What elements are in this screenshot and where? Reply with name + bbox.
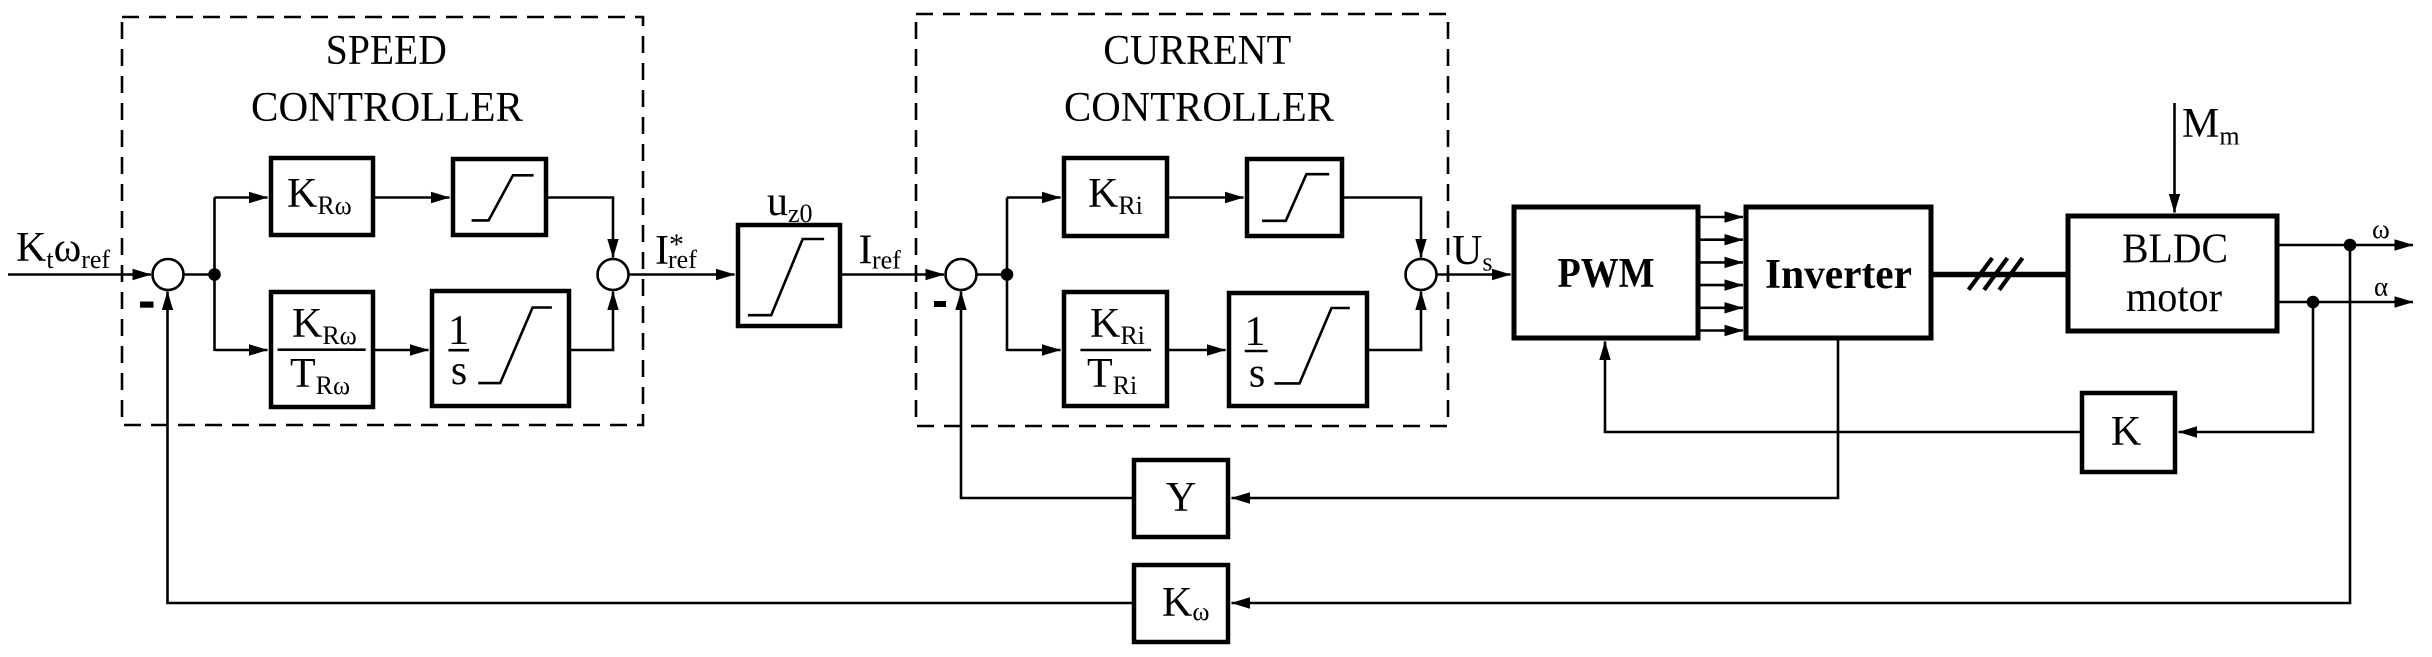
svg-text:1: 1: [1245, 309, 1266, 355]
svg-text:α: α: [2374, 272, 2388, 302]
svg-text:I: I: [655, 228, 669, 274]
svg-text:CONTROLLER: CONTROLLER: [251, 85, 523, 131]
svg-text:motor: motor: [2126, 275, 2222, 321]
svg-text:K: K: [2111, 409, 2141, 455]
svg-text:Inverter: Inverter: [1765, 252, 1912, 298]
svg-text:SPEED: SPEED: [326, 28, 447, 74]
svg-text:CURRENT: CURRENT: [1103, 28, 1291, 74]
svg-text:Us: Us: [1452, 228, 1492, 277]
svg-text:s: s: [1249, 351, 1265, 397]
svg-text:Mm: Mm: [2182, 101, 2240, 151]
svg-text:I: I: [859, 228, 873, 274]
svg-text:Y: Y: [1166, 475, 1196, 521]
svg-text:uz0: uz0: [767, 179, 813, 228]
svg-text:ref: ref: [872, 246, 901, 275]
svg-text:ω: ω: [2372, 214, 2390, 244]
svg-text:BLDC: BLDC: [2122, 227, 2228, 273]
svg-text:s: s: [451, 348, 467, 394]
svg-text:CONTROLLER: CONTROLLER: [1064, 85, 1334, 131]
svg-text:ref: ref: [668, 245, 697, 274]
svg-text:PWM: PWM: [1558, 251, 1655, 297]
svg-text:Ktωref: Ktωref: [16, 225, 110, 274]
